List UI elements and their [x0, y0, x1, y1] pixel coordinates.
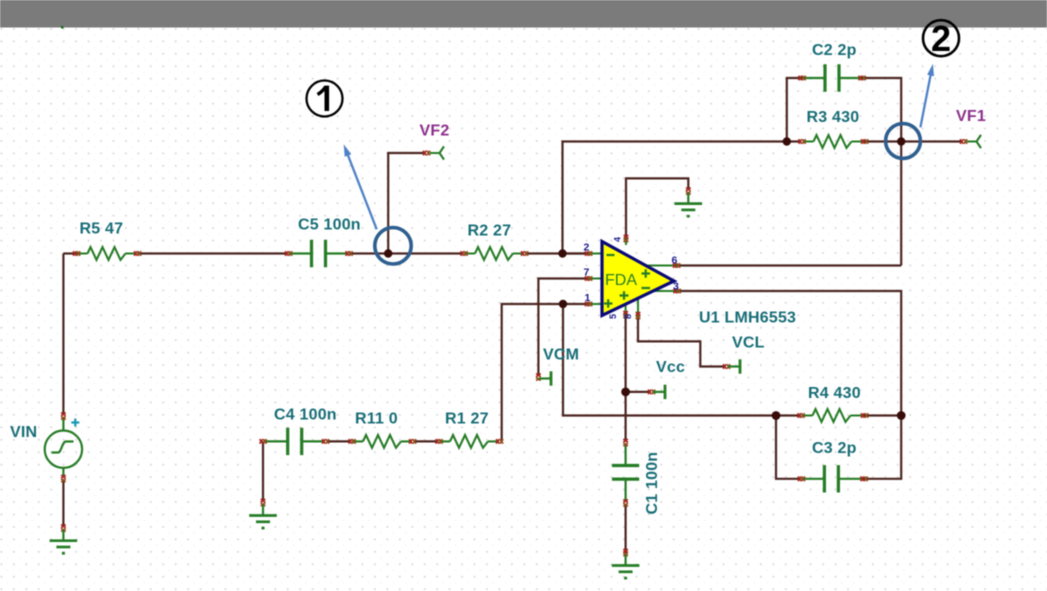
wire: C1 bottom to ground	[624, 504, 626, 553]
terminal VCM	[536, 371, 551, 385]
svg-text:R3 430: R3 430	[807, 109, 860, 126]
capacitor C1 100n (vertical)	[612, 439, 639, 506]
wire: C3 left riser	[776, 416, 801, 479]
svg-text:R4 430: R4 430	[808, 385, 861, 402]
svg-text:5: 5	[608, 314, 618, 319]
wire: FDA pin 3 output row down to R4 right node	[678, 291, 901, 416]
wire: C3 right riser	[863, 416, 902, 479]
svg-text:U1 LMH6553: U1 LMH6553	[699, 310, 796, 327]
node 2 junction dot	[897, 137, 905, 145]
wire: node 2 down to output + row	[900, 142, 902, 266]
terminal VF2	[423, 146, 444, 159]
pin connection mark pin1	[585, 302, 592, 307]
wire: R4 left stub	[776, 414, 801, 416]
svg-text:VF2: VF2	[420, 123, 450, 140]
svg-text:C4 100n: C4 100n	[274, 407, 337, 424]
svg-text:C3 2p: C3 2p	[812, 440, 857, 457]
capacitor C3 2p	[798, 465, 868, 492]
svg-text:VF1: VF1	[956, 108, 986, 125]
small green tick at bar edge	[61, 26, 64, 29]
wire: C2 left riser	[787, 78, 802, 142]
svg-text:7: 7	[584, 267, 590, 279]
wire: R4 right stub	[863, 414, 901, 416]
pin connection mark pin2	[585, 251, 592, 256]
wire: Vcc junction down to C1	[624, 392, 626, 442]
resistor R1 27	[436, 435, 504, 448]
wire: C4 ground riser	[262, 441, 264, 500]
highlight circle node 2	[886, 124, 921, 159]
svg-text:C5 100n: C5 100n	[298, 217, 361, 234]
VIN plus sign	[71, 419, 79, 427]
bottom pin lead 1	[625, 302, 627, 316]
svg-text:FDA: FDA	[605, 272, 637, 289]
svg-text:8: 8	[623, 314, 633, 319]
op-amp output plus	[642, 269, 651, 278]
resistor R3 430	[799, 135, 869, 148]
svg-text:VCL: VCL	[732, 335, 765, 352]
svg-text:R11 0: R11 0	[355, 411, 398, 428]
junction dot pin1 node	[559, 300, 567, 308]
wire: feedback vertical from pin2 node to R3 node	[563, 142, 801, 254]
wire: pin1 node left and down to R1	[502, 304, 563, 441]
wire: C5 to node 1 to R2	[349, 252, 464, 254]
bottom pin lead 2	[637, 296, 639, 317]
wire: VIN bottom to ground	[62, 479, 64, 527]
wire: FDA top pin to ground	[626, 178, 688, 238]
wire: FDA pin 7 to VCM vertical	[538, 279, 589, 377]
capacitor C5 100n	[285, 240, 353, 267]
wire: R5 to C5	[138, 252, 289, 254]
svg-text:VIN: VIN	[10, 424, 37, 441]
node 1 junction dot	[384, 249, 392, 257]
wire: left vertical to VIN	[62, 254, 64, 416]
resistor R11 0	[349, 435, 417, 448]
pin 2 lead	[588, 253, 603, 255]
pin 3 lead	[650, 290, 678, 292]
wire: node 1 up to VF2	[388, 153, 424, 254]
annotation circle 1	[307, 81, 343, 117]
svg-text:C1 100n: C1 100n	[644, 452, 661, 515]
terminal VF1	[960, 135, 981, 148]
resistor R5 47	[73, 247, 141, 260]
annotation arrow 1	[344, 144, 377, 229]
wire: R5 left stub	[63, 252, 76, 254]
wire: R2 to FDA pin 2	[525, 252, 589, 254]
op-amp internal plus (pin1)	[604, 299, 613, 308]
wire: R3 to node 2 to VF1	[864, 140, 962, 142]
svg-text:6: 6	[672, 255, 678, 267]
annotation circle 2	[923, 20, 959, 56]
ground (VIN)	[50, 525, 78, 554]
wire: R11 to R1	[414, 440, 438, 442]
wire: FDA bottom pin 2 to VCL	[638, 317, 725, 367]
wire: pin 1 node to FDA pin 1	[563, 303, 589, 305]
highlight circle node 1	[375, 228, 411, 264]
svg-text:VCM: VCM	[543, 347, 579, 364]
resistor R2 27	[461, 247, 528, 260]
ground (C4)	[249, 499, 277, 528]
ground (C1)	[612, 549, 640, 578]
pin 1 lead	[588, 303, 603, 305]
terminal Vcc	[648, 385, 665, 399]
junction dot R4 right	[897, 411, 906, 420]
pin connection mark pin6	[673, 263, 680, 268]
annotation arrow 2	[920, 64, 934, 128]
capacitor C4 100n	[260, 428, 330, 455]
junction dot R3 left node	[783, 137, 791, 145]
svg-text:R2 27: R2 27	[468, 223, 512, 240]
svg-text:Vcc: Vcc	[656, 359, 685, 376]
op-amp U1 triangle	[602, 242, 674, 316]
wire: Vcc junction stub	[626, 391, 650, 393]
svg-text:4: 4	[613, 237, 623, 242]
pin 6 lead	[645, 265, 677, 267]
junction dot R4 left	[772, 411, 781, 420]
capacitor C2 2p	[799, 64, 866, 91]
pin connection mark pin3	[674, 289, 681, 294]
svg-text:2: 2	[584, 242, 590, 254]
pin connection mark bottom pin 1	[623, 311, 628, 318]
svg-text:C2 2p: C2 2p	[812, 42, 857, 59]
wire: pin 2 node to FDA	[563, 252, 590, 254]
terminal VCL	[723, 359, 740, 373]
voltage source VIN	[45, 419, 82, 478]
op-amp internal minus (pin2)	[607, 254, 615, 256]
junction dot Vcc node	[621, 388, 630, 397]
gray title bar	[0, 0, 1047, 28]
op-amp small plus bottom	[620, 291, 629, 300]
top pin lead	[625, 236, 627, 245]
svg-text:R1 27: R1 27	[445, 411, 489, 428]
pin connection mark top pin	[624, 235, 629, 242]
svg-text:R5 47: R5 47	[80, 221, 124, 238]
pin connection mark bottom pin 2	[636, 312, 641, 319]
op-amp output minus	[642, 287, 651, 289]
pin connection mark pin7	[585, 276, 592, 281]
junction dot pin2 feedback node	[558, 249, 566, 257]
svg-text:2: 2	[931, 18, 951, 59]
wire: C4 to R11	[327, 440, 351, 442]
wire: FDA pin 6 output row	[677, 264, 901, 266]
resistor R4 430	[798, 409, 869, 422]
wire: C2 right riser	[862, 78, 901, 142]
wire: FDA bottom pin 1 down to Vcc junction	[624, 316, 626, 392]
ground (FDA top)	[675, 188, 703, 217]
pin 7 lead	[588, 278, 603, 280]
svg-text:3: 3	[673, 281, 679, 293]
svg-text:1: 1	[585, 292, 591, 304]
wire: lower feedback from pin1 node to R4 node	[563, 304, 776, 416]
op-amp U1 FDA pin leads	[588, 236, 678, 317]
